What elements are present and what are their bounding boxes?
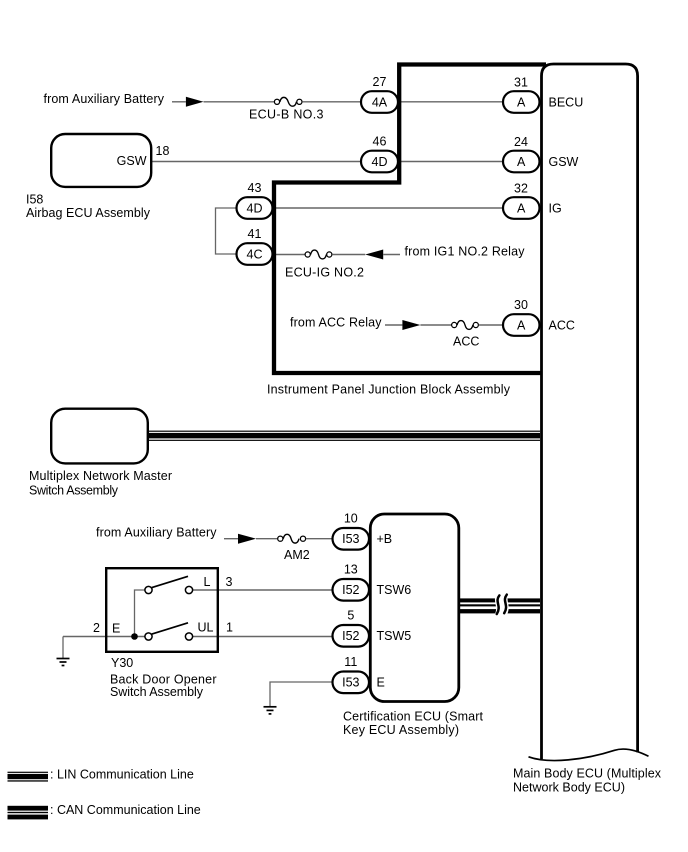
svg-text:Switch Assembly: Switch Assembly [29,484,119,498]
wire row4: fuse to arrow [332,254,365,256]
svg-text:A: A [517,318,526,332]
wire row1: 4A to A (inside junction block) [398,101,504,103]
Instrument Panel Junction Block outline [274,65,546,374]
svg-text:4D: 4D [372,155,388,169]
wire row2: GSW box to 4D [152,161,362,163]
wire TSW6 row: switch box to I52 [193,589,334,591]
svg-text:Certification ECU (Smart: Certification ECU (Smart [343,710,484,724]
wire: switch common vertical link [135,590,145,637]
svg-text:: LIN Communication Line: : LIN Communication Line [50,768,194,782]
wire row4: arrow to text [383,254,400,256]
switch SW1 lever (L contact) [152,576,188,587]
svg-text:Airbag ECU Assembly: Airbag ECU Assembly [26,206,151,220]
connector 4A (pin 27) [361,91,398,113]
Main Body ECU wavy bottom edge [529,749,649,761]
wire row5: fuse to A(ACC) [479,324,504,326]
wire E row: I53 to ground riser [270,682,334,706]
svg-text:GSW: GSW [549,155,579,169]
connector 4D (pin 46) [361,151,398,173]
fuse ECU-IG NO.2 [305,250,332,259]
svg-text:43: 43 [248,181,262,195]
svg-text:from ACC Relay: from ACC Relay [290,316,382,330]
svg-text:1: 1 [226,621,233,635]
wire row1: arrow to fuse [204,101,275,103]
svg-text:I52: I52 [342,583,359,597]
fuse AM2 [278,534,306,543]
wire +B row: fuse to I53 [306,538,334,540]
svg-text:Key ECU Assembly): Key ECU Assembly) [343,723,459,737]
svg-text:Network Body ECU): Network Body ECU) [513,781,625,795]
svg-text:from IG1 NO.2 Relay: from IG1 NO.2 Relay [405,245,526,259]
svg-text:10: 10 [344,512,358,526]
svg-text:24: 24 [514,135,528,149]
arrow (from ACC Relay, row5) [402,320,420,330]
svg-text:4D: 4D [247,201,263,215]
fuse ACC [452,321,479,330]
svg-text:Switch Assembly: Switch Assembly [110,685,204,699]
svg-text:UL: UL [198,621,214,635]
connector I53 (pin 10) [333,528,370,550]
fuse ECU-B NO.3 [274,97,302,106]
ground G2 (below E) [264,707,277,714]
arrow (from Auxiliary Battery, row1) [186,97,204,107]
CAN line break symbol [494,593,509,617]
junction dot (E common) [131,633,138,640]
svg-text:2: 2 [93,621,100,635]
connector 4C (pin 41) [237,243,273,265]
wire row1: arrow lead from Auxiliary Battery [172,101,186,103]
svg-text:BECU: BECU [549,95,584,109]
svg-text:I58: I58 [26,193,43,207]
connector 4D (pin 43) [237,197,273,219]
arrow (from Auxiliary Battery, +B row) [238,534,256,544]
svg-text:+B: +B [377,532,393,546]
svg-text:Multiplex Network Master: Multiplex Network Master [29,469,172,483]
switch SW1 contacts [145,586,152,593]
svg-text:Y30: Y30 [111,656,133,670]
svg-text:30: 30 [514,298,528,312]
svg-text:18: 18 [156,144,170,158]
ground G1 (left of switch box) [57,637,70,666]
LIN communication line (Multiplex switch to Main Body ECU) [149,431,541,441]
svg-text:Main Body ECU (Multiplex: Main Body ECU (Multiplex [513,767,662,781]
connector A (pin 30) [503,314,540,336]
wire +B row: arrow lead [224,538,238,540]
svg-text:ECU-IG NO.2: ECU-IG NO.2 [285,266,364,280]
Back Door Opener Switch box (Y30) [106,568,218,652]
Main Body ECU outline [542,64,638,759]
svg-text:from Auxiliary Battery: from Auxiliary Battery [44,92,165,106]
svg-text:A: A [517,155,526,169]
legend CAN symbol [8,806,49,820]
svg-text:5: 5 [347,609,354,623]
Multiplex Network Master Switch box [51,409,148,464]
connector I53 (pin 11) [333,672,370,694]
wire row5: arrow to fuse [420,324,451,326]
svg-text:I52: I52 [342,629,359,643]
svg-text:4A: 4A [372,95,388,109]
wire row1: fuse to 4A [302,101,362,103]
wire +B row: arrow to fuse [256,538,277,540]
svg-text:E: E [377,675,385,689]
connector A (pin 31) [503,91,540,113]
svg-text:ECU-B NO.3: ECU-B NO.3 [249,108,324,122]
connector I52 (pin 13) [333,579,370,601]
svg-text:GSW: GSW [117,154,147,168]
svg-text:4C: 4C [247,247,263,261]
svg-text:L: L [204,575,211,589]
svg-text:I53: I53 [342,675,359,689]
svg-text:13: 13 [344,563,358,577]
Certification ECU box [370,514,459,702]
svg-text:ACC: ACC [453,335,479,349]
wire row5: text to arrow [385,324,402,326]
svg-text:32: 32 [514,182,528,196]
svg-text:TSW6: TSW6 [377,583,412,597]
svg-text:Instrument Panel Junction Bloc: Instrument Panel Junction Block Assembly [267,383,511,397]
svg-text:31: 31 [514,76,528,90]
svg-text:E: E [112,622,120,636]
svg-text:: CAN Communication Line: : CAN Communication Line [50,803,201,817]
svg-text:11: 11 [344,655,357,669]
wire row3: 4D(43) to A(IG) [272,207,504,209]
svg-text:I53: I53 [342,532,359,546]
svg-text:A: A [517,95,526,109]
switch SW2 lever (UL contact) [152,623,188,634]
connector A (pin 24) [503,151,540,173]
svg-text:41: 41 [248,227,262,241]
svg-text:A: A [517,201,526,215]
arrow (from IG1 NO.2 Relay, pointing left) [365,250,383,260]
svg-text:27: 27 [373,75,387,89]
svg-text:IG: IG [549,201,562,215]
Airbag ECU box (I58) [51,134,151,187]
svg-text:AM2: AM2 [284,548,310,562]
wire row2: 4D to A [398,161,504,163]
switch SW2 contacts [145,633,152,640]
connector I52 (pin 5) [333,625,370,647]
svg-text:46: 46 [373,135,387,149]
bracket wire joining 4D(43) and 4C [216,208,238,254]
svg-text:ACC: ACC [549,318,575,332]
CAN communication line (Certification ECU to Main Body ECU) [459,598,540,613]
wire TSW5 row: ground/switch through box to I52 [63,636,145,638]
connector A (pin 32) [503,197,540,219]
svg-text:3: 3 [226,575,233,589]
wire row4: 4C to fuse [272,254,305,256]
svg-text:TSW5: TSW5 [377,629,412,643]
svg-text:from Auxiliary Battery: from Auxiliary Battery [96,526,217,540]
Main Body ECU white fill [541,63,639,750]
legend LIN symbol [8,772,49,782]
